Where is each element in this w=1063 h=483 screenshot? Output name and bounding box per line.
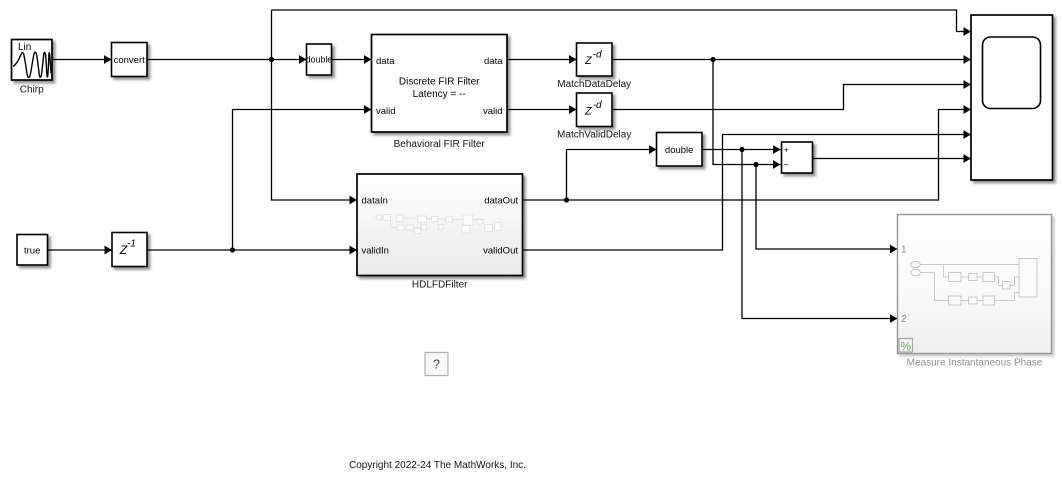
svg-text:MatchDataDelay: MatchDataDelay: [557, 79, 631, 90]
svg-text:?: ?: [433, 358, 440, 372]
svg-text:double: double: [665, 145, 694, 156]
svg-text:validOut: validOut: [483, 246, 518, 257]
svg-text:valid: valid: [483, 106, 503, 117]
svg-text:Lin: Lin: [18, 42, 31, 53]
svg-text:Chirp: Chirp: [20, 85, 44, 96]
svg-text:data: data: [484, 56, 503, 67]
svg-text:Discrete FIR Filter: Discrete FIR Filter: [399, 77, 480, 88]
svg-text:Z: Z: [584, 105, 592, 117]
svg-text:-d: -d: [593, 100, 602, 111]
svg-text:+: +: [784, 145, 789, 155]
svg-text:-d: -d: [593, 50, 602, 61]
svg-text:−: −: [784, 159, 789, 169]
svg-text:dataIn: dataIn: [362, 196, 388, 207]
svg-text:Z: Z: [584, 55, 592, 67]
svg-text:MatchValidDelay: MatchValidDelay: [557, 129, 631, 140]
svg-text:data: data: [376, 56, 395, 67]
svg-text:%: %: [900, 340, 911, 354]
svg-text:Latency = --: Latency = --: [413, 89, 466, 100]
svg-text:validIn: validIn: [362, 246, 389, 257]
svg-text:Behavioral FIR Filter: Behavioral FIR Filter: [394, 139, 486, 150]
svg-text:2: 2: [901, 314, 907, 325]
svg-text:1: 1: [901, 245, 907, 256]
svg-text:double: double: [306, 55, 333, 65]
svg-text:Measure Instantaneous Phase: Measure Instantaneous Phase: [907, 357, 1043, 368]
svg-text:convert: convert: [114, 55, 146, 66]
svg-text:true: true: [24, 245, 40, 256]
svg-text:Copyright 2022-24 The MathWork: Copyright 2022-24 The MathWorks, Inc.: [349, 460, 526, 471]
svg-text:valid: valid: [376, 106, 396, 117]
svg-text:HDLFDFilter: HDLFDFilter: [412, 280, 468, 291]
svg-text:-1: -1: [127, 238, 136, 249]
svg-text:dataOut: dataOut: [484, 196, 518, 207]
